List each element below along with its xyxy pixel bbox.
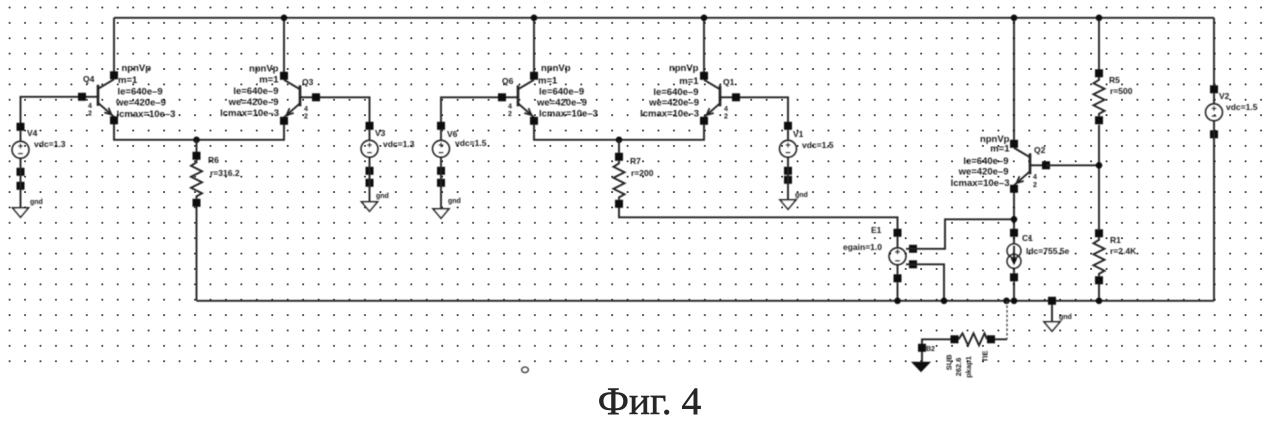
wire: bottom rail to gnd bbox=[1051, 305, 1053, 322]
svg-text:m=1: m=1 bbox=[259, 74, 279, 85]
svg-text:lcmax=10e–3: lcmax=10e–3 bbox=[640, 108, 699, 119]
svg-text:m=1: m=1 bbox=[118, 75, 138, 86]
ground symbol (V1 gnd) bbox=[780, 200, 796, 210]
wire: Q3 collector riser bbox=[283, 18, 285, 75]
wire: V6 to gnd bbox=[440, 167, 442, 209]
junction E1 out- / bottom rail bbox=[894, 298, 901, 305]
svg-text:B2: B2 bbox=[926, 346, 935, 353]
svg-text:le=640e–9: le=640e–9 bbox=[963, 156, 1008, 167]
svg-text:vdc=1.5: vdc=1.5 bbox=[1226, 102, 1258, 112]
svg-text:Q1: Q1 bbox=[723, 77, 735, 87]
svg-text:we=420e–9: we=420e–9 bbox=[228, 97, 279, 108]
voltage source V4 bbox=[12, 123, 29, 176]
svg-text:gnd: gnd bbox=[376, 193, 389, 200]
parameters Q2 bbox=[951, 134, 1011, 189]
svg-text:V2: V2 bbox=[1219, 91, 1230, 101]
ground symbol (V4 gnd) bbox=[13, 208, 29, 218]
svg-text:R5: R5 bbox=[1109, 75, 1120, 85]
wire: sub drop (dashed) bbox=[1006, 301, 1008, 340]
svg-text:r=2.4K: r=2.4K bbox=[1110, 246, 1137, 256]
junction top rail / Q1 bbox=[701, 15, 708, 22]
wire: R5 top riser bbox=[1098, 18, 1100, 73]
wire: Q2 base to R5/R1 node bbox=[1046, 164, 1099, 166]
junction top rail / Q3 bbox=[281, 15, 288, 22]
svg-text:R6: R6 bbox=[208, 155, 219, 165]
svg-text:Q2: Q2 bbox=[1034, 145, 1046, 155]
wire: R2 left lead to substrate bbox=[922, 339, 951, 362]
wire: R7 bottom to E1 top bbox=[619, 207, 898, 230]
wire: R6 bottom to bottom rail bbox=[196, 206, 198, 301]
junction C1 / bottom rail bbox=[1011, 298, 1018, 305]
wire: V3 to gnd bbox=[369, 167, 371, 202]
parameters Q1 bbox=[640, 63, 699, 120]
svg-text:4: 4 bbox=[88, 103, 92, 110]
svg-text:lcmax=10e–3: lcmax=10e–3 bbox=[951, 178, 1010, 189]
svg-text:vdc=1.3: vdc=1.3 bbox=[383, 139, 415, 149]
junction Q2 emitter / E1 in+ bbox=[1011, 216, 1018, 223]
svg-text:R1: R1 bbox=[1110, 235, 1121, 245]
wire: R6 top stub bbox=[196, 140, 198, 153]
svg-text:we=420e–9: we=420e–9 bbox=[648, 97, 699, 108]
wire: V4 to gnd bbox=[20, 168, 22, 208]
wire: V6 to Q6 base bbox=[441, 97, 502, 126]
svg-text:r=316.2: r=316.2 bbox=[210, 168, 240, 178]
svg-text:4: 4 bbox=[508, 103, 512, 110]
junction Q2 base node bbox=[1096, 162, 1103, 169]
wire: V4 to Q4 base bbox=[21, 97, 83, 127]
svg-text:lcmax=10e–3: lcmax=10e–3 bbox=[220, 108, 279, 119]
svg-text:gnd: gnd bbox=[1059, 314, 1072, 321]
svg-text:V3: V3 bbox=[375, 128, 386, 138]
junction pair2 emitters / R7 bbox=[616, 137, 623, 144]
transistor Q2 bbox=[1010, 140, 1050, 193]
svg-text:Q3: Q3 bbox=[302, 77, 314, 87]
wire: pair2 emitter rail bbox=[534, 125, 704, 140]
V1 lower pin square bbox=[784, 176, 792, 184]
svg-text:E1: E1 bbox=[871, 225, 882, 235]
svg-text:R7: R7 bbox=[630, 156, 641, 166]
svg-text:vdc=1.5: vdc=1.5 bbox=[455, 138, 487, 148]
resistor R2 (substrate) bbox=[951, 333, 996, 345]
transistor Q1 bbox=[700, 72, 740, 125]
wire: R7 top stub bbox=[618, 140, 620, 154]
svg-text:Q6: Q6 bbox=[502, 76, 514, 86]
svg-text:npnVp: npnVp bbox=[669, 63, 699, 74]
voltage source V6 bbox=[433, 122, 450, 175]
wire: top supply rail bbox=[114, 17, 1214, 19]
wire: Q2 collector riser bbox=[1013, 18, 1015, 141]
wire: bottom common rail bbox=[197, 300, 1215, 302]
resistor R1 bbox=[1094, 229, 1105, 284]
junction pair1 emitters / R6 bbox=[193, 137, 200, 144]
pin square B2 bbox=[918, 344, 926, 352]
svg-text:npnVp: npnVp bbox=[541, 63, 571, 74]
controlled source E1 bbox=[889, 229, 917, 301]
svg-text:pkap1: pkap1 bbox=[964, 356, 973, 378]
junction top rail / Q2 bbox=[1011, 15, 1018, 22]
svg-text:TIE: TIE bbox=[981, 351, 990, 363]
svg-text:2: 2 bbox=[1033, 182, 1037, 189]
svg-text:egain=1.0: egain=1.0 bbox=[843, 242, 882, 252]
ground symbol (bottom rail gnd) bbox=[1044, 322, 1060, 332]
svg-text:we=420e–9: we=420e–9 bbox=[115, 97, 166, 108]
svg-text:V4: V4 bbox=[27, 128, 38, 138]
svg-text:4: 4 bbox=[1033, 174, 1037, 181]
svg-text:4: 4 bbox=[724, 106, 728, 113]
svg-text:Idc=755.5e: Idc=755.5e bbox=[1026, 246, 1070, 256]
junction E1 in- / bottom rail bbox=[941, 298, 948, 305]
parameters Q6 bbox=[536, 63, 598, 120]
wire: V1 to gnd bbox=[787, 167, 789, 200]
svg-text:lcmax=10e–3: lcmax=10e–3 bbox=[539, 108, 598, 119]
parameters Q3 bbox=[220, 63, 279, 119]
svg-text:Фиг. 4: Фиг. 4 bbox=[598, 379, 702, 423]
junction sub drop / bottom rail bbox=[1003, 298, 1010, 305]
svg-text:C1: C1 bbox=[1022, 233, 1033, 243]
current source C1 bbox=[1007, 229, 1021, 301]
ground symbol (V3 gnd) bbox=[362, 202, 378, 212]
wire: Q2 emitter to current source bbox=[1013, 193, 1015, 231]
voltage source V2 bbox=[1206, 85, 1223, 138]
svg-text:Q4: Q4 bbox=[83, 74, 95, 84]
svg-text:lcmax=10e–3: lcmax=10e–3 bbox=[117, 109, 176, 120]
svg-text:2: 2 bbox=[304, 113, 308, 120]
svg-text:r=500: r=500 bbox=[1110, 86, 1133, 96]
wire: R2 right lead bbox=[995, 338, 1007, 340]
svg-text:le=640e–9: le=640e–9 bbox=[539, 86, 584, 97]
V6 lower pin square bbox=[437, 179, 445, 187]
svg-text:2: 2 bbox=[88, 110, 92, 117]
svg-text:vdc=1.5: vdc=1.5 bbox=[802, 140, 834, 150]
junction top rail / Q6 bbox=[531, 15, 538, 22]
transistor Q4 bbox=[78, 71, 118, 124]
ground symbol (V6 gnd) bbox=[433, 209, 449, 219]
svg-text:we=420e–9: we=420e–9 bbox=[958, 166, 1009, 177]
wire: pair1 emitter rail bbox=[114, 124, 284, 140]
voltage source V3 bbox=[361, 122, 378, 175]
wire: Q1 base to V1 bbox=[736, 97, 788, 126]
svg-text:V1: V1 bbox=[793, 129, 804, 139]
svg-text:gnd: gnd bbox=[448, 198, 461, 205]
transistor Q6 bbox=[498, 72, 538, 125]
junction top rail / R5 bbox=[1096, 15, 1103, 22]
svg-text:2: 2 bbox=[724, 113, 728, 120]
svg-text:npnVp: npnVp bbox=[122, 63, 152, 74]
substrate ground (filled) bbox=[911, 362, 931, 373]
resistor R5 bbox=[1094, 69, 1105, 124]
wire: Q1 collector riser bbox=[703, 18, 705, 75]
svg-text:4: 4 bbox=[304, 106, 308, 113]
junction R1 / bottom rail bbox=[1096, 298, 1103, 305]
wire: R5 bottom to R1 top bbox=[1098, 125, 1100, 231]
wire: V2 bottom to bottom rail bbox=[1213, 131, 1215, 301]
svg-text:r=200: r=200 bbox=[631, 168, 654, 178]
transistor Q3 bbox=[280, 72, 320, 125]
svg-text:2: 2 bbox=[508, 111, 512, 118]
stray o mark bbox=[522, 367, 529, 373]
svg-text:gnd: gnd bbox=[30, 199, 43, 206]
resistor R7 bbox=[614, 153, 625, 208]
svg-text:vdc=1.3: vdc=1.3 bbox=[34, 139, 66, 149]
svg-text:m=1: m=1 bbox=[538, 75, 558, 86]
V3 lower pin square bbox=[366, 179, 374, 187]
svg-text:le=640e–9: le=640e–9 bbox=[233, 86, 278, 97]
wire: V2 top drop bbox=[1213, 18, 1215, 90]
svg-text:262.6: 262.6 bbox=[954, 358, 963, 377]
svg-text:le=640e–9: le=640e–9 bbox=[118, 86, 163, 97]
svg-text:gnd: gnd bbox=[795, 192, 808, 199]
svg-text:npnVp: npnVp bbox=[249, 63, 279, 74]
V4 lower pin square bbox=[17, 182, 25, 190]
wire: Q3 base to V3 bbox=[316, 97, 370, 126]
svg-text:we=420e–9: we=420e–9 bbox=[536, 97, 587, 108]
svg-text:m=1: m=1 bbox=[990, 143, 1010, 154]
gnd pin on bottom rail bbox=[1048, 297, 1056, 305]
resistor R6 bbox=[191, 152, 202, 207]
svg-text:SUB: SUB bbox=[945, 354, 954, 370]
wire: E1 in- to bottom rail bbox=[906, 264, 944, 301]
voltage source V1 bbox=[780, 122, 797, 175]
parameters Q4 bbox=[115, 63, 175, 120]
svg-text:m=1: m=1 bbox=[679, 76, 699, 87]
wire: E1 in+ to Q2 emitter node bbox=[906, 219, 1014, 249]
wire: R1 bottom to bottom rail bbox=[1098, 284, 1100, 301]
wire: Q6 collector riser bbox=[533, 18, 535, 75]
svg-text:le=640e–9: le=640e–9 bbox=[653, 87, 698, 98]
wire: Q4 collector riser bbox=[113, 18, 115, 74]
